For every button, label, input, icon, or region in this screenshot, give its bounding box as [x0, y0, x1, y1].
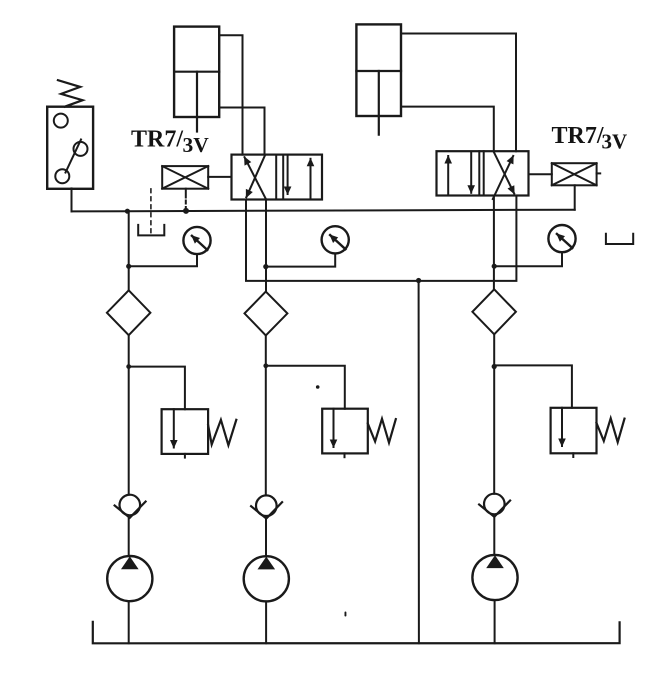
- svg-text:TR7/: TR7/: [131, 126, 183, 152]
- svg-text:3V: 3V: [602, 129, 628, 153]
- svg-text:TR7/: TR7/: [552, 123, 604, 149]
- svg-text:3V: 3V: [183, 133, 210, 157]
